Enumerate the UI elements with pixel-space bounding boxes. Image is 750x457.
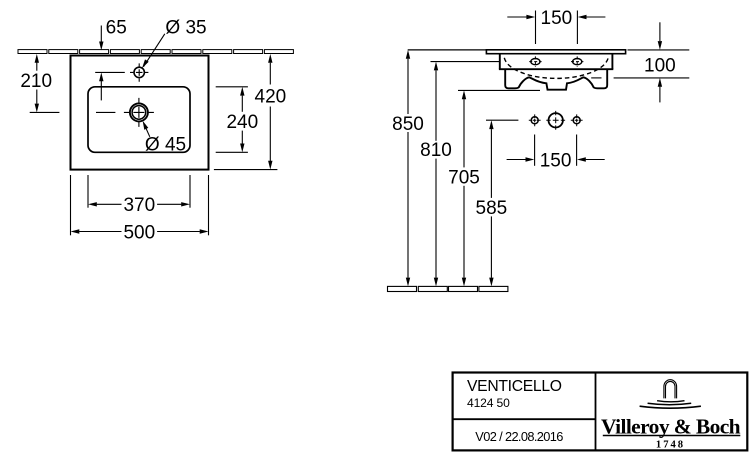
- wall line: [408, 49, 486, 51]
- basin inner bowl rounded rectangle: [88, 87, 190, 153]
- svg-text:850: 850: [392, 114, 424, 135]
- logo ripples: [657, 401, 684, 402]
- dim 420: [214, 63, 278, 170]
- title block outer box: [453, 373, 748, 451]
- dim 585: [486, 120, 518, 278]
- svg-text:Ø 35: Ø 35: [165, 17, 206, 38]
- floor band: [388, 286, 508, 291]
- wall tile band: [18, 50, 293, 54]
- svg-text:585: 585: [476, 198, 508, 219]
- title block dividers: [595, 373, 597, 451]
- dim 210: [36, 63, 38, 104]
- body sides and bottom: [499, 54, 613, 69]
- drain hole center cross: [124, 98, 154, 127]
- hidden bowl dashed arc: [504, 58, 608, 79]
- under profile with feet and drain boss: [505, 69, 607, 90]
- svg-text:4124 50: 4124 50: [467, 396, 510, 410]
- dim 240: [216, 87, 248, 153]
- rim slab: [486, 50, 625, 54]
- dim 810: [431, 62, 500, 278]
- svg-text:100: 100: [644, 55, 676, 76]
- dim 850: [407, 59, 409, 278]
- dim 150 top: [507, 11, 605, 45]
- svg-text:150: 150: [540, 150, 572, 171]
- svg-text:VENTICELLO: VENTICELLO: [467, 378, 562, 395]
- svg-text:500: 500: [123, 222, 155, 243]
- logo arch: [664, 380, 677, 399]
- dim 100: [591, 22, 689, 102]
- svg-text:Ø 45: Ø 45: [145, 134, 186, 155]
- svg-text:420: 420: [255, 87, 287, 108]
- svg-text:V02 / 22.08.2016: V02 / 22.08.2016: [475, 429, 563, 444]
- faucet hole circle: [134, 67, 144, 77]
- deck faucet hole ellipses: [531, 59, 540, 65]
- basin outer rectangle: [71, 56, 209, 170]
- drain hole double circle: [130, 103, 148, 121]
- dim 370: [88, 175, 190, 208]
- svg-text:240: 240: [226, 112, 258, 133]
- dim 500: [71, 175, 209, 235]
- wall mounting holes and drain circle: [531, 117, 538, 124]
- faucet center reference line (65 dim): [95, 71, 125, 73]
- svg-text:370: 370: [123, 195, 155, 216]
- svg-text:65: 65: [106, 17, 127, 38]
- svg-text:705: 705: [448, 168, 480, 189]
- logo underline: [603, 435, 741, 437]
- faucet hole center cross: [130, 63, 148, 81]
- svg-text:1748: 1748: [656, 440, 685, 451]
- dim 150 bottom: [507, 135, 605, 166]
- drain center line dashes: [30, 111, 116, 113]
- svg-text:150: 150: [541, 8, 573, 29]
- svg-text:210: 210: [20, 71, 52, 92]
- dim 65: [100, 26, 102, 101]
- dim 705: [458, 90, 540, 277]
- svg-text:810: 810: [420, 140, 452, 161]
